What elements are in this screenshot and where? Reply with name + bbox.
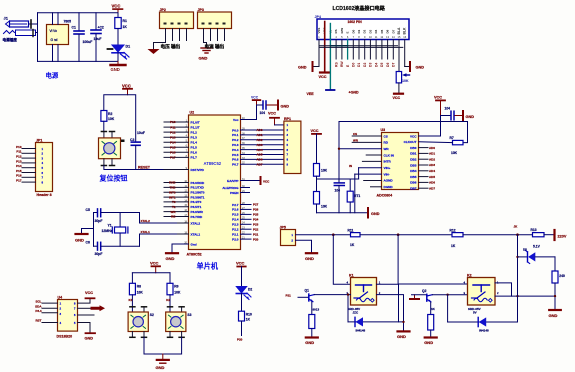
svg-text:GND: GND — [75, 238, 84, 243]
wire WR to bus — [339, 148, 382, 150]
svg-text:K1: K1 — [129, 298, 133, 302]
button S3 — [166, 307, 192, 338]
ground power-gnd triangle — [148, 49, 160, 54]
svg-text:7805: 7805 — [64, 20, 72, 24]
svg-text:VCC: VCC — [434, 96, 442, 100]
svg-text:P11: P11 — [170, 125, 176, 129]
svg-text:AD1: AD1 — [257, 133, 263, 137]
svg-text:AD2: AD2 — [257, 138, 263, 142]
svg-text:AD1: AD1 — [429, 152, 435, 156]
resistor R10 — [241, 294, 243, 312]
svg-text:GND: GND — [305, 256, 314, 261]
svg-text:RS: RS — [334, 62, 338, 67]
button S2 — [128, 307, 154, 338]
svg-text:DB4: DB4 — [410, 169, 416, 173]
resistor Q2 emitter — [430, 302, 432, 314]
wire lcd red VDD inside — [324, 22, 326, 40]
svg-text:P23: P23 — [253, 223, 259, 227]
svg-text:电源插座: 电源插座 — [3, 37, 18, 42]
relay K1 — [347, 274, 381, 315]
svg-text:C5: C5 — [86, 208, 90, 212]
svg-text:AD0: AD0 — [257, 128, 263, 132]
wire relay2 right bottom pin — [495, 295, 555, 297]
svg-text:GND: GND — [416, 66, 425, 70]
svg-text:DB0: DB0 — [410, 146, 416, 150]
svg-text:GND: GND — [397, 334, 406, 339]
svg-text:VSS: VSS — [317, 28, 321, 34]
svg-text:GND: GND — [156, 365, 165, 370]
wire clk bus vertical — [338, 122, 340, 183]
node labels U4 left — [35, 299, 42, 322]
wire MCU gnd pin — [172, 244, 189, 253]
svg-text:AD2: AD2 — [429, 157, 435, 161]
svg-text:GND: GND — [466, 115, 475, 119]
svg-text:30pF: 30pF — [95, 219, 103, 223]
svg-text:P27: P27 — [253, 203, 259, 207]
svg-text:VEE: VEE — [307, 92, 315, 96]
svg-text:R2: R2 — [108, 112, 112, 116]
relay K2 — [464, 274, 500, 315]
ground MCU — [166, 252, 178, 254]
svg-text:BLA: BLA — [397, 27, 401, 35]
wire Q2 collector to relay2 — [432, 294, 467, 296]
wire main rail — [296, 234, 351, 236]
svg-text:PSEN: PSEN — [230, 191, 239, 195]
svg-text:P15: P15 — [16, 169, 22, 173]
svg-text:JP5: JP5 — [280, 226, 286, 230]
svg-text:电源: 电源 — [46, 71, 59, 80]
diode D4 flyback — [447, 295, 449, 322]
svg-text:P25: P25 — [253, 213, 259, 217]
node labels AD0-AD7 — [257, 128, 263, 166]
svg-text:DB2: DB2 — [410, 158, 416, 162]
svg-text:DB3: DB3 — [410, 163, 416, 167]
wire analog gnd rail — [317, 212, 368, 214]
svg-text:AD6: AD6 — [429, 181, 435, 185]
svg-text:P3.7/RD: P3.7/RD — [191, 215, 203, 219]
svg-text:D2: D2 — [363, 29, 367, 33]
svg-text:VCC: VCC — [263, 180, 270, 184]
lcd pin wires below — [319, 40, 405, 72]
svg-text:P10: P10 — [16, 145, 22, 149]
svg-text:P11: P11 — [16, 150, 22, 154]
svg-text:D3: D3 — [368, 29, 372, 33]
wire VL teal drop — [329, 40, 331, 90]
svg-text:D4: D4 — [374, 63, 378, 67]
svg-text:Vi Vo: Vi Vo — [50, 29, 58, 33]
svg-text:Q1: Q1 — [305, 289, 310, 293]
svg-text:P15: P15 — [170, 146, 176, 150]
svg-text:P0.7: P0.7 — [232, 163, 239, 167]
svg-text:5.1V: 5.1V — [533, 245, 541, 249]
svg-text:复位按钮: 复位按钮 — [99, 174, 128, 183]
svg-text:AD7: AD7 — [257, 163, 263, 167]
svg-text:VCC: VCC — [268, 112, 276, 116]
power VCC reset — [122, 84, 132, 95]
wire header pins — [22, 149, 36, 183]
svg-text:C6: C6 — [86, 241, 90, 245]
svg-text:P3.4/T0: P3.4/T0 — [191, 200, 202, 204]
ground Q2 base bar — [414, 295, 416, 299]
wire VIN+ drop — [358, 168, 360, 179]
resistor R2 — [101, 111, 107, 122]
svg-text:D2: D2 — [248, 288, 252, 292]
wire top to crystal — [101, 212, 139, 214]
wire keys bottom rail — [144, 337, 182, 354]
wire stub row8 — [364, 179, 382, 181]
svg-text:XTAL2: XTAL2 — [141, 219, 151, 223]
ground crystal — [82, 229, 94, 234]
wire jack tip to rail — [29, 23, 38, 25]
wire P2 stubs — [241, 205, 252, 240]
wire top rail — [38, 12, 119, 14]
svg-text:VCC: VCC — [251, 96, 259, 100]
svg-text:D5: D5 — [523, 248, 527, 252]
MCU right pin numbers — [242, 117, 245, 240]
ADC right pin names — [404, 134, 418, 190]
svg-text:GND: GND — [371, 212, 380, 216]
svg-text:P17: P17 — [16, 179, 22, 183]
svg-text:VIN-: VIN- — [384, 172, 390, 176]
svg-text:P2.3: P2.3 — [232, 223, 239, 227]
svg-text:AD4: AD4 — [429, 169, 435, 173]
pin 1 mark — [30, 20, 32, 28]
svg-text:10K: 10K — [321, 205, 328, 209]
svg-text:VCC: VCC — [112, 4, 121, 9]
svg-text:10K: 10K — [137, 291, 144, 295]
connector JP2 power output — [160, 8, 194, 41]
svg-text:DB6: DB6 — [410, 181, 416, 185]
svg-text:P10: P10 — [170, 120, 176, 124]
wire clk top loop — [339, 122, 468, 143]
ground right column — [549, 309, 561, 311]
svg-text:VCC: VCC — [85, 291, 93, 295]
svg-text:AD0: AD0 — [429, 146, 435, 150]
svg-text:T0: T0 — [172, 200, 176, 204]
svg-text:D5: D5 — [380, 29, 384, 33]
svg-text:RESET: RESET — [138, 166, 151, 170]
svg-text:GND: GND — [305, 340, 314, 345]
svg-text:K2: K2 — [166, 298, 170, 302]
svg-text:P1.0/T: P1.0/T — [191, 120, 200, 124]
svg-text:SCL: SCL — [36, 299, 42, 303]
svg-text:10K: 10K — [108, 117, 115, 121]
svg-text:JP1: JP1 — [36, 139, 42, 143]
svg-text:U2: U2 — [190, 111, 195, 115]
wire JP2 pin1 to ground — [154, 41, 166, 49]
resistor R14 — [554, 257, 556, 271]
svg-text:VIN+: VIN+ — [384, 166, 391, 170]
resistor R4 divider top — [314, 164, 320, 177]
ground left of VSS — [313, 66, 319, 68]
svg-text:D3: D3 — [369, 63, 373, 67]
svg-text:P0.0: P0.0 — [232, 128, 239, 132]
svg-text:P26: P26 — [253, 208, 259, 212]
svg-text:SDA: SDA — [35, 305, 42, 309]
resistor R9 — [167, 283, 173, 295]
ADC left pin names — [384, 134, 395, 189]
capacitor C1 — [72, 13, 93, 62]
svg-text:R10: R10 — [246, 312, 252, 316]
wire left vertical — [37, 13, 39, 62]
svg-text:P2.5: P2.5 — [232, 213, 239, 217]
svg-text:1K: 1K — [246, 317, 251, 321]
wire teal E column — [347, 40, 349, 60]
svg-text:P3.5/T1: P3.5/T1 — [191, 205, 202, 209]
svg-text:电流 输出: 电流 输出 — [205, 43, 225, 50]
svg-text:GND: GND — [111, 67, 120, 72]
wire RD — [352, 141, 381, 143]
svg-text:30pF: 30pF — [95, 252, 103, 256]
wire reset bottom / RST net — [104, 166, 177, 170]
svg-text:CS: CS — [353, 132, 357, 136]
svg-text:5V: 5V — [473, 311, 477, 315]
wire PSEN stub — [241, 192, 250, 194]
wire lcd teal VL inside — [329, 24, 331, 40]
node labels P27-P20 — [253, 203, 259, 242]
svg-text:P16: P16 — [170, 151, 176, 155]
svg-text:10K: 10K — [321, 169, 328, 173]
svg-text:R9: R9 — [174, 285, 178, 289]
wire U4 right bottom to GND — [78, 323, 91, 333]
svg-text:C1: C1 — [72, 26, 76, 30]
svg-text:AD6: AD6 — [257, 158, 263, 162]
ground analog sideways — [367, 208, 369, 218]
svg-text:S3: S3 — [187, 313, 191, 317]
connector J1 power jack — [4, 16, 29, 28]
svg-text:P0.1: P0.1 — [232, 133, 239, 137]
power bar 220V right — [553, 230, 555, 240]
svg-text:P12: P12 — [16, 155, 22, 159]
wire R8 to S2 — [131, 295, 133, 312]
wire R9 to S3 — [169, 295, 171, 312]
svg-text:T1: T1 — [172, 205, 176, 209]
wire pot bottom — [398, 83, 400, 93]
svg-text:104: 104 — [445, 107, 451, 111]
wire drop to relay2 — [398, 235, 467, 284]
svg-text:P3.3/INT1: P3.3/INT1 — [191, 195, 205, 199]
wire cap to gnd red — [267, 104, 277, 106]
svg-text:RXD: RXD — [169, 181, 176, 185]
svg-text:AD3: AD3 — [429, 163, 435, 167]
svg-text:INT1: INT1 — [169, 195, 176, 199]
svg-text:P0.2: P0.2 — [232, 138, 239, 142]
svg-text:P1.4: P1.4 — [191, 141, 198, 145]
svg-text:D6: D6 — [386, 63, 390, 67]
svg-text:DB7: DB7 — [410, 187, 416, 191]
svg-text:IN4148: IN4148 — [479, 329, 489, 333]
svg-text:Q2: Q2 — [422, 289, 427, 293]
regulator U1 7805 — [47, 13, 72, 62]
svg-text:AT89C52: AT89C52 — [204, 161, 222, 166]
svg-text:BLK: BLK — [403, 27, 407, 35]
svg-text:G nd: G nd — [51, 38, 58, 42]
wire VCC pin — [419, 116, 441, 137]
LED D1 — [108, 45, 131, 62]
svg-text:100uF: 100uF — [83, 40, 93, 44]
ground right BLK — [405, 66, 410, 68]
svg-text:ALE/PROG: ALE/PROG — [222, 186, 239, 190]
svg-text:P14: P14 — [170, 140, 176, 144]
wire U4 right top to VCC — [78, 299, 91, 303]
MCU left pin numbers — [184, 119, 187, 244]
svg-text:P2.4: P2.4 — [232, 218, 239, 222]
svg-text:AT89C52: AT89C52 — [187, 253, 202, 257]
svg-text:P1.2: P1.2 — [191, 130, 198, 134]
svg-text:P2.7: P2.7 — [232, 203, 239, 207]
svg-text:GND: GND — [85, 337, 94, 341]
svg-text:P22: P22 — [253, 227, 259, 231]
wire ALE stub — [241, 187, 250, 189]
bus line 1 — [319, 45, 398, 47]
svg-text:P0.3: P0.3 — [232, 143, 239, 147]
svg-text:P17: P17 — [170, 156, 176, 160]
svg-text:INTR: INTR — [384, 160, 392, 164]
svg-text:U3: U3 — [381, 128, 386, 132]
svg-text:P3.0/RXD: P3.0/RXD — [191, 181, 206, 185]
wire divider tap — [317, 178, 359, 180]
wire stub row9 — [371, 186, 382, 188]
svg-text:P1.5: P1.5 — [191, 146, 198, 150]
svg-text:WR: WR — [171, 210, 177, 214]
svg-text:AD3: AD3 — [257, 143, 263, 147]
svg-text:CS: CS — [384, 134, 388, 138]
AC plug symbol — [4, 30, 38, 37]
svg-text:VCC: VCC — [410, 134, 417, 138]
svg-text:CLKOUT: CLKOUT — [404, 140, 417, 144]
wire XTAL1 net — [140, 234, 177, 246]
svg-text:DB1: DB1 — [410, 152, 416, 156]
wire JP5 pin2 to gnd — [296, 240, 312, 252]
svg-text:10K: 10K — [402, 79, 409, 83]
node labels AD0-AD7 adc — [429, 146, 435, 191]
trimpot RV1 — [396, 72, 401, 83]
svg-text:+C2: +C2 — [98, 26, 104, 30]
wire P0 bus to RP — [241, 130, 284, 164]
LCD pin numbers row — [318, 35, 406, 39]
svg-text:JZC: JZC — [353, 311, 360, 315]
svg-text:P2.2: P2.2 — [232, 228, 239, 232]
MCU right pin names — [222, 118, 239, 242]
svg-text:XTAL2: XTAL2 — [191, 221, 201, 225]
svg-text:10uF: 10uF — [94, 37, 102, 41]
svg-text:Header 8: Header 8 — [37, 193, 52, 197]
resistor R1 — [115, 13, 128, 45]
svg-text:单片机: 单片机 — [197, 262, 219, 271]
wire rail seg2 — [360, 234, 452, 236]
svg-text:1K: 1K — [350, 243, 355, 247]
capacitor adc bypass — [441, 115, 451, 117]
svg-text:P2.1: P2.1 — [232, 233, 239, 237]
power VCC top right — [112, 4, 123, 13]
svg-text:P20: P20 — [253, 237, 259, 241]
wire clkout to resistor — [419, 141, 453, 144]
svg-text:12MHz: 12MHz — [102, 229, 113, 233]
svg-text:GND: GND — [166, 256, 175, 261]
power VCC bar under VDD — [320, 71, 330, 73]
wire XTAL2 net — [140, 213, 177, 224]
wire VDD red drop — [324, 40, 326, 73]
ground Q1 — [306, 336, 318, 338]
svg-text:1K: 1K — [123, 25, 128, 29]
wire main vertical right — [517, 235, 519, 322]
svg-text:R12: R12 — [450, 229, 456, 233]
ground earth symbol — [201, 48, 212, 53]
svg-text:10K: 10K — [174, 291, 181, 295]
svg-text:IN4148: IN4148 — [356, 329, 366, 333]
svg-text:D0: D0 — [351, 29, 355, 33]
svg-text:LCD1602液晶接口电路: LCD1602液晶接口电路 — [333, 5, 386, 12]
transistor Q1 — [305, 289, 320, 312]
power bar pot bottom — [394, 93, 403, 95]
svg-text:+GND: +GND — [349, 91, 359, 95]
svg-text:RST: RST — [36, 319, 42, 323]
svg-text:VCC: VCC — [319, 75, 327, 79]
svg-text:P2.0: P2.0 — [232, 237, 239, 241]
svg-text:VCC: VCC — [150, 261, 159, 266]
svg-text:GND: GND — [298, 66, 307, 70]
wire drop to relay1 — [333, 235, 350, 285]
svg-text:D5: D5 — [380, 63, 384, 67]
svg-text:P14: P14 — [16, 164, 22, 168]
svg-text:S2: S2 — [150, 313, 154, 317]
MCU left net labels — [169, 120, 176, 219]
wire bottom rail — [38, 60, 119, 62]
diode D5 zener — [518, 256, 527, 258]
svg-text:P3.4: P3.4 — [35, 309, 42, 313]
svg-text:P12: P12 — [170, 130, 176, 134]
svg-text:P2.6: P2.6 — [232, 208, 239, 212]
svg-text:ADC0804: ADC0804 — [377, 194, 393, 198]
LED D2 — [236, 287, 246, 293]
svg-text:10K: 10K — [451, 151, 458, 155]
svg-text:P1.1/T: P1.1/T — [191, 125, 200, 129]
svg-text:RD: RD — [384, 141, 389, 145]
svg-text:CLK IN: CLK IN — [384, 153, 395, 157]
svg-text:104: 104 — [260, 111, 266, 115]
svg-text:P1.3: P1.3 — [191, 136, 198, 140]
svg-text:R/W: R/W — [340, 28, 344, 34]
capacitor C2 — [91, 13, 104, 62]
svg-text:DS18B20: DS18B20 — [57, 335, 73, 339]
wire CS — [352, 135, 381, 137]
svg-text:P1.7: P1.7 — [191, 156, 198, 160]
svg-text:RST/VPD: RST/VPD — [191, 168, 205, 172]
wire INTR stub — [362, 160, 381, 162]
ground GND below LED — [111, 61, 126, 72]
svg-text:9013: 9013 — [313, 308, 320, 312]
wire U4 left pins — [42, 303, 58, 322]
capacitor clk — [334, 182, 344, 184]
svg-text:P3.6/WR: P3.6/WR — [191, 210, 204, 214]
svg-text:R7: R7 — [450, 136, 454, 140]
svg-text:Y1: Y1 — [108, 224, 112, 228]
svg-text:TXD: TXD — [170, 186, 177, 190]
transistor Q2 — [422, 289, 436, 311]
capacitor C3 — [130, 131, 145, 170]
svg-text:GND: GND — [424, 340, 433, 345]
wire U4 right stub — [78, 314, 95, 316]
svg-text:R13: R13 — [531, 228, 537, 232]
svg-text:D7: D7 — [391, 29, 395, 33]
svg-text:P0.5: P0.5 — [232, 153, 239, 157]
wire reset top — [104, 95, 136, 142]
svg-text:P0.6: P0.6 — [232, 158, 239, 162]
svg-text:VCC: VCC — [311, 129, 319, 133]
svg-text:E: E — [346, 32, 350, 34]
svg-text:WR: WR — [353, 138, 359, 142]
wire rail seg4 — [544, 234, 554, 236]
